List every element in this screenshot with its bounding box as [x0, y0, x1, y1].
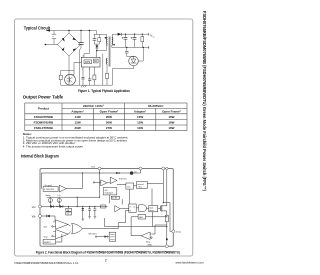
wire: burst out — [56, 234, 62, 242]
wire: drain node to pin — [163, 203, 172, 232]
current source Istr — [130, 171, 133, 174]
wire: Vfb rail — [42, 215, 56, 217]
svg-text:Figure 2. Functional Block Dia: Figure 2. Functional Block Diagram of FS… — [36, 250, 180, 254]
AC source V1 — [52, 34, 56, 38]
node: vstr drop junction — [99, 172, 100, 173]
node: AC line arrow — [46, 29, 50, 31]
svg-text:20W: 20W — [75, 126, 81, 130]
resistor R — [66, 212, 72, 215]
svg-text:FSDH0765RB/FSDM0765RB/FSDL0765: FSDH0765RB/FSDM0765RB/FSDL0765RB DS Rev.… — [15, 261, 79, 265]
page frame — [15, 19, 193, 256]
diode D_vcc2 — [60, 205, 63, 208]
wire: primary bottom to drain bus — [106, 44, 109, 46]
node: comp1 input terminal — [93, 182, 94, 183]
svg-text:13W: 13W — [75, 121, 81, 125]
IC boundary U1 — [40, 169, 173, 247]
svg-text:Internal: Internal — [138, 183, 145, 186]
wire: left edge stub — [40, 173, 42, 189]
block gate driver — [149, 206, 158, 212]
IC U1 FPS — [81, 57, 100, 67]
svg-text:27W: 27W — [106, 126, 112, 130]
pin Drain — [172, 230, 175, 233]
svg-text:FSDH0765RB/FSDM0765RB (FSDH076: FSDH0765RB/FSDM0765RB (FSDH0765RBWDTU) G… — [202, 11, 207, 191]
resistor R3 — [93, 67, 95, 75]
wire: comp2 to OR — [68, 232, 70, 235]
diode D_fb — [46, 215, 49, 218]
svg-text:Vsd: Vsd — [44, 227, 47, 229]
wire: primary top rail — [46, 30, 97, 32]
wire: 431 cathode loop — [143, 47, 144, 48]
svg-text:BURST: BURST — [44, 242, 51, 244]
wire: bias down — [151, 189, 153, 206]
wire: FPS left pin to opto — [74, 61, 81, 63]
comparator OCP — [141, 232, 150, 240]
svg-text:FPS: FPS — [85, 60, 90, 64]
snubber resistor R1 — [98, 34, 100, 37]
wire: Vcc rail — [42, 206, 108, 208]
bridge rectifier BD1 — [58, 33, 81, 56]
capacitor C_int — [89, 207, 91, 209]
svg-text:Open Frame²: Open Frame² — [100, 110, 119, 114]
transistor Q1 SenseFET — [158, 207, 161, 209]
wire: driver down — [152, 212, 154, 227]
wire: bus left riser — [104, 218, 106, 227]
svg-text:Vcc good: Vcc good — [45, 185, 52, 187]
node: rail junction — [82, 172, 83, 173]
node: sense junction — [166, 216, 167, 217]
block burst — [43, 240, 56, 245]
current source Ich — [57, 198, 61, 202]
svg-text:16W: 16W — [168, 126, 174, 130]
wire: drain bus down B — [166, 170, 168, 206]
wire: AND to driver — [147, 207, 149, 209]
capacitor C3 (Vcc) — [82, 67, 84, 77]
wire: aux vertical — [102, 54, 104, 86]
pin Vfb — [39, 215, 42, 218]
svg-text:Product: Product — [38, 107, 49, 111]
svg-text:Osc: Osc — [127, 186, 131, 188]
node: AC terminal dot — [45, 44, 47, 46]
svg-text:20W: 20W — [106, 121, 112, 125]
wire: internal top rail — [41, 172, 140, 174]
pin aux top — [139, 167, 142, 170]
svg-text:4 2.5R: 4 2.5R — [112, 198, 118, 200]
wire: snubber bottom join — [94, 43, 99, 45]
svg-text:Vocp: Vocp — [146, 241, 150, 243]
svg-text:O: O — [153, 37, 155, 39]
wire: bridge bottom to ground rail — [68, 56, 70, 85]
comparator PWM2 — [56, 230, 69, 239]
wire: startup rail — [47, 196, 100, 198]
svg-text:modulation: modulation — [105, 192, 113, 195]
capacitor C_ref — [94, 207, 96, 209]
svg-text:10W: 10W — [137, 115, 143, 119]
wire: LEB left — [131, 217, 138, 231]
svg-text:S/S 10ms: S/S 10ms — [119, 178, 127, 180]
resistor R2 (opto bias) — [59, 75, 62, 80]
svg-text:GND: GND — [148, 245, 153, 247]
notes — [23, 132, 129, 148]
wire: fb to comparator — [54, 216, 56, 221]
resistor R5 (fb divider) — [106, 73, 109, 78]
diode D_vcc — [50, 205, 53, 208]
capacitor C1 (bulk) — [78, 43, 83, 45]
resistor Rsense — [165, 215, 168, 222]
block 5V regulator — [103, 188, 117, 195]
zener D_z — [82, 207, 84, 209]
comparator UVLO — [59, 185, 66, 192]
pin Vcc — [39, 205, 42, 208]
wire: secondary return rail — [112, 46, 149, 48]
svg-text:Typical Circuit: Typical Circuit — [24, 25, 51, 30]
svg-text:Istr: Istr — [134, 171, 137, 174]
wire: divider stub — [68, 207, 70, 209]
gate AND1 — [139, 205, 147, 212]
svg-text:Bias: Bias — [139, 187, 143, 189]
node: transformer phase dot primary — [105, 37, 107, 39]
svg-text:driver: driver — [150, 209, 155, 212]
wire: 431 anode down — [112, 66, 133, 85]
table body text — [34, 115, 175, 130]
ground (C_ref) — [94, 217, 97, 219]
diode D_ss — [95, 236, 96, 237]
diode D1 (snubber) — [96, 44, 98, 45]
svg-text:S/S 10ms: S/S 10ms — [89, 233, 97, 235]
block SS2 — [109, 232, 116, 241]
svg-text:www.fairchildsemi.com: www.fairchildsemi.com — [175, 260, 204, 264]
wire: comp to latch — [120, 208, 129, 210]
comparator set — [115, 206, 120, 212]
svg-text:Output Power Table: Output Power Table — [23, 95, 64, 100]
table grid — [25, 103, 187, 131]
wire: Vstr drop — [99, 170, 101, 197]
snubber capacitor C2 — [93, 34, 95, 38]
node: vstr junction — [99, 197, 100, 198]
secondary: output diode D3 — [112, 33, 117, 35]
gate OR1 — [72, 223, 83, 234]
wire: UVLO out — [66, 173, 82, 189]
ground symbol — [81, 85, 86, 87]
switch SW1 — [116, 172, 119, 174]
svg-text:4. The junction temperature li: 4. The junction temperature limits outpu… — [23, 145, 84, 149]
wire: secondary top rail — [122, 33, 149, 35]
wire: ss down — [121, 199, 123, 204]
node: vcc junction — [56, 206, 57, 207]
block OSC — [126, 183, 134, 189]
wire: OR output — [82, 228, 118, 230]
capacitor C6 (+) — [134, 34, 135, 35]
wire: Vstr pin up — [83, 54, 85, 58]
wire: comp1 to OR — [68, 225, 70, 227]
svg-text:20W: 20W — [106, 115, 112, 119]
wire: AC to bridge left — [53, 39, 55, 45]
wire: secondary top drop — [111, 34, 113, 37]
svg-text:Adapter¹: Adapter¹ — [71, 110, 83, 114]
svg-text:I ch: I ch — [58, 195, 61, 197]
svg-text:2: 2 — [105, 258, 107, 262]
wire: opto to ground — [69, 84, 71, 86]
svg-text:14W: 14W — [75, 115, 81, 119]
comparator PWM1 — [56, 220, 69, 229]
node: transformer phase dot secondary — [113, 44, 115, 46]
wire: osc down — [129, 189, 131, 204]
table header text — [38, 104, 181, 114]
svg-text:11W: 11W — [137, 126, 143, 130]
svg-text:16W: 16W — [168, 121, 174, 125]
pin Drain top A — [162, 167, 165, 170]
shunt regulator U3 KA431 — [129, 56, 139, 66]
transformer T1 — [109, 37, 111, 67]
svg-text:Open Frame²: Open Frame² — [162, 110, 181, 114]
wire: osc to bias — [134, 185, 137, 187]
wire: bottom bus — [105, 226, 167, 228]
current source Idelay — [48, 198, 52, 202]
block LEB — [138, 215, 146, 220]
latch FF1 — [129, 204, 137, 212]
ground rail (primary) — [61, 84, 113, 86]
node: sense bottom square — [166, 239, 168, 241]
wire: LEB to sense — [146, 216, 167, 218]
wire: primary top — [106, 34, 108, 37]
wire: OCP input from sense — [153, 225, 167, 234]
svg-text:0.7V/0.65V: 0.7V/0.65V — [44, 189, 55, 191]
pin Vstr — [98, 167, 101, 170]
wire: snubber feed — [96, 31, 98, 35]
svg-text:230VAC ±15%²: 230VAC ±15%² — [83, 104, 104, 108]
wire: bridge top to rail — [68, 31, 70, 34]
wire: startup riser — [76, 197, 78, 206]
wire: source down — [166, 211, 168, 215]
svg-text:Internal Block Diagram: Internal Block Diagram — [21, 154, 59, 159]
wire: OCP output — [131, 231, 141, 236]
block S/S — [111, 196, 119, 199]
resistor R_fb — [101, 205, 106, 208]
comparator Vstr sense — [101, 180, 107, 186]
resistor R4 (preload) — [142, 34, 143, 35]
node: Vo terminal — [148, 33, 150, 36]
wire: reg down — [109, 195, 111, 203]
pin GND — [165, 245, 168, 248]
block internal bias — [137, 182, 148, 189]
svg-text:11W: 11W — [137, 121, 143, 125]
svg-text:Figure 1. Typical Flyback Appl: Figure 1. Typical Flyback Application — [78, 89, 130, 93]
svg-text:I delay: I delay — [45, 195, 50, 197]
svg-text:Vocp: Vocp — [44, 236, 48, 238]
svg-text:85-265VAC: 85-265VAC — [148, 104, 164, 108]
opto coupler U2 — [65, 74, 76, 85]
ground (C_int) — [88, 217, 91, 219]
wire: drain bus down A — [162, 170, 164, 203]
winding: Vcc aux — [106, 58, 107, 64]
node: rail junction — [68, 30, 69, 31]
svg-text:Gate: Gate — [150, 207, 154, 210]
svg-text:Vstr: Vstr — [91, 165, 95, 168]
svg-text:FSDM0765RB: FSDM0765RB — [34, 121, 54, 125]
capacitor C7 (ref filter) — [126, 47, 127, 48]
wire: AC source drop — [53, 31, 55, 35]
svg-text:Drain: Drain — [176, 231, 182, 234]
wire: latch to AND — [136, 207, 139, 209]
svg-text:Adapter¹: Adapter¹ — [134, 110, 146, 114]
svg-text:16W: 16W — [168, 115, 174, 119]
svg-text:FSDH0765RB: FSDH0765RB — [34, 115, 54, 119]
svg-text:FSDL0765RB: FSDL0765RB — [34, 126, 54, 130]
wire: reg to osc — [117, 183, 126, 185]
pin Drain top B — [166, 167, 168, 169]
resistor 3R — [66, 208, 72, 211]
wire: bulk cap drop — [80, 31, 82, 43]
block Vref UVLO — [43, 187, 58, 192]
comparator Vstr2 — [110, 177, 117, 183]
capacitor C5 (+) — [125, 34, 126, 35]
wire: aux winding bottom — [106, 64, 108, 66]
capacitor C4 (fb) — [89, 67, 91, 79]
